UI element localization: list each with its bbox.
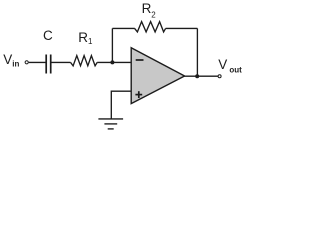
svg-text:V: V [3, 52, 12, 67]
svg-text:2: 2 [151, 11, 156, 20]
svg-text:R: R [78, 30, 88, 45]
svg-text:R: R [142, 1, 152, 16]
svg-text:in: in [12, 59, 19, 68]
svg-text:V: V [218, 57, 227, 72]
svg-text:1: 1 [88, 37, 93, 46]
svg-text:C: C [43, 28, 53, 43]
svg-text:out: out [229, 66, 242, 75]
